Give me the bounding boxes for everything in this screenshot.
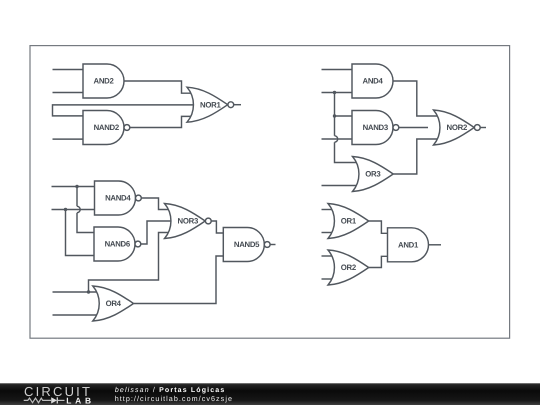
or-gate OR2 xyxy=(328,250,369,285)
wire NAND2 output to NOR1 input 3 xyxy=(130,116,193,127)
wire bus vertical to OR3 (lower) xyxy=(335,142,359,162)
svg-text:AND4: AND4 xyxy=(362,77,383,86)
wire OR4 input B xyxy=(53,314,99,316)
node AND4 input B junction xyxy=(333,91,336,94)
node OR4 input A junction xyxy=(87,290,90,293)
svg-text:http://circuitlab.com/cv6zsje: http://circuitlab.com/cv6zsje xyxy=(115,394,233,403)
wire hop over NAND4 input B xyxy=(77,206,80,212)
svg-text:OR4: OR4 xyxy=(106,299,122,308)
wire OR4 output to NAND5 input 2 xyxy=(134,256,224,304)
wire OR2 input B xyxy=(322,278,334,280)
wire OR4 input A branch to NOR3 input 3 xyxy=(89,233,171,293)
wire OR2 output to AND1 input 2 xyxy=(369,256,388,267)
wire AND4 output to NOR2 input 1 xyxy=(393,81,439,116)
nor-gate NOR3 xyxy=(165,204,212,239)
and-gate AND2 xyxy=(83,64,124,98)
wire NOR2 output xyxy=(480,127,486,129)
svg-text:OR3: OR3 xyxy=(365,170,381,179)
node NAND4 input B junction xyxy=(64,208,67,211)
nand-gate NAND5 xyxy=(223,228,270,262)
wire OR4 input A xyxy=(53,291,99,293)
wire NAND4 inputA branch down to NAND6 input 1 (lower) xyxy=(77,213,94,233)
wire NAND4 input B xyxy=(52,209,95,211)
wire bus vertical to NAND3 and OR3 (upper) xyxy=(334,93,336,136)
wire AND1 output xyxy=(429,244,442,246)
wire NAND3 output xyxy=(399,127,429,129)
or-gate OR1 xyxy=(328,204,369,239)
svg-text:NAND4: NAND4 xyxy=(105,194,131,203)
nand-gate NAND3 xyxy=(352,111,399,145)
wire NAND3 input 2 xyxy=(322,138,353,140)
svg-text:belissan / Portas Lógicas: belissan / Portas Lógicas xyxy=(115,386,225,394)
svg-text:AND2: AND2 xyxy=(93,77,114,86)
wire AND2 input B xyxy=(53,92,84,94)
wire AND2 output to NOR1 input 1 xyxy=(124,81,193,93)
svg-text:NAND5: NAND5 xyxy=(234,240,260,249)
or-gate OR3 xyxy=(353,157,394,192)
wire NAND2 input 2 xyxy=(53,138,84,140)
nand-gate NAND2 xyxy=(83,111,130,145)
node NAND4 input A junction xyxy=(75,185,78,188)
CircuitLab logo diode symbol xyxy=(51,397,57,403)
wire NOR1 middle input to NAND2 input 1 xyxy=(53,105,195,116)
or-gate OR4 xyxy=(93,286,134,321)
and-gate AND4 xyxy=(352,64,393,98)
svg-text:NOR3: NOR3 xyxy=(178,217,199,226)
wire AND2 input A xyxy=(53,69,84,71)
wire NAND4 input A xyxy=(52,186,95,188)
schematic border xyxy=(30,46,510,339)
svg-text:NOR1: NOR1 xyxy=(200,100,221,109)
nand-gate NAND4 xyxy=(95,181,142,215)
wire hop over NAND3 input 2 xyxy=(335,136,338,142)
nand-gate NAND6 xyxy=(94,227,141,261)
svg-text:NAND3: NAND3 xyxy=(363,123,389,132)
wire NOR3 output to NAND5 input 1 xyxy=(211,221,223,233)
svg-text:OR2: OR2 xyxy=(341,263,357,272)
svg-text:NOR2: NOR2 xyxy=(447,123,468,132)
node NAND3 input 1 junction xyxy=(333,114,336,117)
svg-text:OR1: OR1 xyxy=(341,217,357,226)
wire NOR1 output xyxy=(234,104,242,106)
svg-text:NAND6: NAND6 xyxy=(105,240,131,249)
and-gate AND1 xyxy=(388,228,429,262)
wire NAND4 inputA branch down to NAND6 input 1 (upper) xyxy=(76,187,78,207)
wire NAND5 output xyxy=(270,244,276,246)
wire AND4 input B xyxy=(322,92,353,94)
wire AND4 input A xyxy=(322,69,353,71)
CircuitLab logo resistor symbol xyxy=(24,398,51,403)
svg-text:LAB: LAB xyxy=(66,396,95,405)
svg-text:AND1: AND1 xyxy=(398,241,419,250)
footer bar xyxy=(0,383,540,405)
wire OR3 input 2 xyxy=(322,185,359,187)
nor-gate NOR1 xyxy=(187,87,234,122)
wire OR1 input B xyxy=(322,232,334,234)
wire NAND3 input 1 stub xyxy=(335,115,353,117)
wire NAND4 output to NOR3 input 1 xyxy=(141,198,170,210)
wire OR2 input A xyxy=(322,255,334,257)
wire NAND6 output to NOR3 input 2 xyxy=(141,221,173,244)
wire OR1 input A xyxy=(322,209,334,211)
svg-text:NAND2: NAND2 xyxy=(94,123,120,132)
nor-gate NOR2 xyxy=(434,110,481,145)
wire NAND4 inputB branch down to NAND6 input 2 xyxy=(66,210,95,256)
wire OR1 output to AND1 input 1 xyxy=(369,221,388,233)
wire OR3 output to NOR2 input 2 xyxy=(394,139,440,174)
